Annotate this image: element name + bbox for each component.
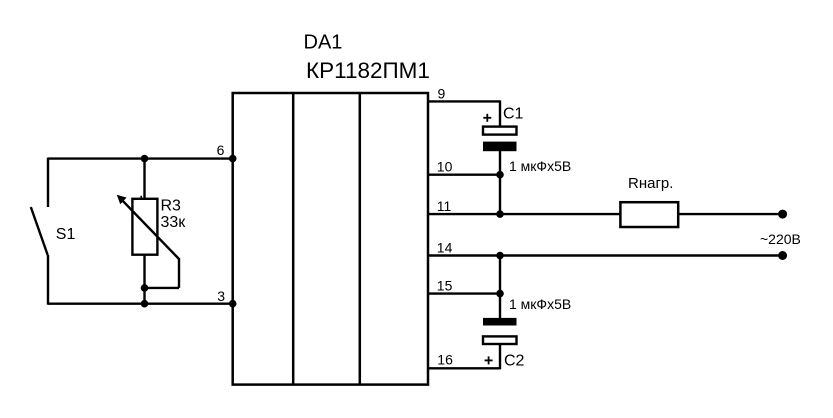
svg-text:1 мкФх5В: 1 мкФх5В [509, 296, 571, 312]
svg-text:6: 6 [217, 142, 225, 158]
svg-text:1 мкФх5В: 1 мкФх5В [509, 158, 571, 174]
svg-text:DA1: DA1 [304, 32, 343, 54]
svg-text:16: 16 [437, 352, 453, 368]
svg-text:33к: 33к [161, 214, 187, 231]
svg-text:C1: C1 [503, 106, 524, 123]
svg-text:~220В: ~220В [760, 231, 801, 247]
svg-text:3: 3 [217, 288, 225, 304]
svg-text:S1: S1 [56, 226, 76, 243]
svg-text:14: 14 [437, 239, 453, 255]
svg-text:11: 11 [437, 198, 452, 214]
svg-text:C2: C2 [504, 353, 525, 370]
svg-text:R3: R3 [161, 198, 182, 215]
svg-text:Rнагр.: Rнагр. [628, 175, 673, 192]
svg-text:10: 10 [437, 159, 453, 175]
svg-text:15: 15 [437, 277, 453, 293]
svg-text:9: 9 [438, 85, 446, 101]
svg-text:КР1182ПМ1: КР1182ПМ1 [306, 58, 430, 83]
